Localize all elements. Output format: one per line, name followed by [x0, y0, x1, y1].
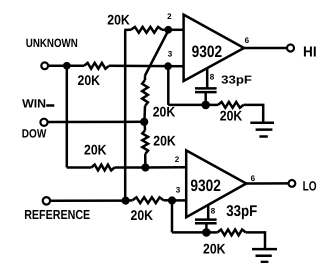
svg-text:3: 3: [168, 50, 173, 59]
capacitor 33pF (U2): [195, 220, 217, 224]
svg-text:20K: 20K: [153, 132, 176, 148]
resistor 20K (top feedback): [131, 27, 162, 33]
terminal REFERENCE input: [43, 197, 50, 204]
wire U2 output to LO terminal: [246, 182, 288, 185]
svg-text:9302: 9302: [192, 43, 223, 61]
wire resistor to pin3 node U1: [109, 65, 168, 68]
resistor 20K (U2 to ground): [218, 230, 246, 236]
svg-text:2: 2: [175, 155, 180, 164]
svg-text:UNKNOWN: UNKNOWN: [26, 36, 78, 50]
terminal HI output: [287, 45, 294, 52]
wire top corner to resistor: [124, 29, 131, 32]
wire pin3 node to U2: [172, 199, 186, 202]
wire resistor to ground corner: [246, 232, 265, 249]
svg-text:33pF: 33pF: [221, 74, 252, 86]
terminal WINDOW input: [40, 119, 47, 126]
wire reference terminal to column node: [50, 199, 125, 202]
wire cap to junction: [205, 223, 208, 232]
wire resistor to chain bottom node: [115, 166, 146, 169]
wire resistor to mid node: [143, 106, 146, 122]
wire cap to junction: [204, 92, 207, 105]
junction chain bottom node (pin2 U2): [141, 163, 149, 171]
resistor 20K (unknown to pin2 U2): [91, 165, 114, 171]
wire node to resistor: [206, 104, 218, 107]
wire U1 pin8 stub: [206, 69, 209, 89]
label WIN-: [22, 96, 54, 110]
terminal LO output: [289, 180, 296, 187]
op-amp U1 9302: [184, 15, 244, 81]
wire resistor to pin3 node U2: [164, 199, 173, 202]
junction pin2 node U1: [164, 26, 172, 34]
wire pin3 node to U1: [168, 65, 184, 68]
wire pin3 feedback down: [167, 66, 170, 105]
svg-text:20K: 20K: [131, 207, 154, 223]
wire bottom node to U2 pin2: [145, 166, 186, 169]
wire corner to lower-left resistor: [67, 166, 92, 169]
svg-text:HI: HI: [303, 45, 317, 61]
junction unknown node: [63, 62, 71, 70]
wire unknown column down: [66, 66, 69, 168]
svg-text:8: 8: [210, 73, 215, 82]
wire reference node to resistor: [126, 199, 133, 202]
wire feedback column (reference node up to top resistor): [124, 30, 127, 201]
svg-text:REFERENCE: REFERENCE: [24, 207, 90, 222]
junction pin3 node U1: [164, 62, 172, 70]
wire divider top lead: [144, 76, 147, 81]
wire mid node to lower resistor: [143, 122, 146, 130]
svg-text:3: 3: [176, 185, 181, 194]
resistor 20K (reference to pin3 U2): [133, 197, 164, 203]
svg-text:WIN: WIN: [22, 96, 46, 110]
wire feedback horizontal to cap junction: [168, 104, 205, 107]
svg-text:20K: 20K: [84, 142, 107, 158]
junction reference node: [122, 197, 130, 205]
svg-text:20K: 20K: [203, 241, 226, 257]
svg-text:6: 6: [251, 174, 256, 183]
svg-text:6: 6: [245, 36, 250, 45]
wire window terminal to divider mid node: [48, 121, 144, 124]
svg-text:20K: 20K: [78, 72, 101, 88]
wire node to resistor: [206, 231, 217, 234]
wire U2 pin8 stub: [207, 204, 210, 220]
op-amp U2 9302: [186, 150, 246, 217]
resistor 20K (U1 to ground): [218, 102, 244, 108]
svg-text:LO: LO: [303, 179, 317, 194]
wire diagonal pin2 node to divider top: [145, 31, 168, 76]
svg-text:8: 8: [211, 207, 216, 216]
wire feedback horizontal to cap junction (U2): [172, 231, 206, 234]
svg-text:20K: 20K: [107, 12, 130, 28]
junction pin3 node U2: [168, 196, 176, 204]
wire U1 output to HI terminal: [244, 47, 287, 50]
junction cap/resistor node (U2): [202, 228, 211, 237]
ground symbol (U2): [252, 249, 277, 262]
terminal UNKNOWN input: [41, 62, 48, 69]
junction divider mid node (window): [140, 118, 148, 126]
wire resistor to pin2 node U1: [162, 29, 168, 32]
wire node to resistor: [67, 65, 84, 68]
svg-text:2: 2: [167, 12, 172, 21]
wire unknown terminal to node: [48, 65, 67, 68]
capacitor 33pF (U1): [195, 88, 217, 92]
svg-text:9302: 9302: [190, 177, 221, 195]
junction cap/resistor node (U1): [201, 101, 210, 110]
svg-text:20K: 20K: [220, 107, 243, 123]
resistor 20K (divider upper): [142, 80, 148, 106]
wire pin3 feedback down (U2): [171, 201, 174, 233]
svg-text:33pF: 33pF: [226, 203, 257, 220]
resistor 20K (unknown to pin3 U1): [84, 63, 109, 69]
resistor 20K (divider lower): [142, 130, 148, 154]
ground symbol (U1): [250, 123, 274, 137]
wire resistor to chain bottom node: [144, 154, 147, 168]
wire pin2 node to U1: [168, 29, 183, 32]
wire resistor to ground corner: [244, 105, 264, 123]
svg-text:DOW: DOW: [22, 127, 47, 141]
